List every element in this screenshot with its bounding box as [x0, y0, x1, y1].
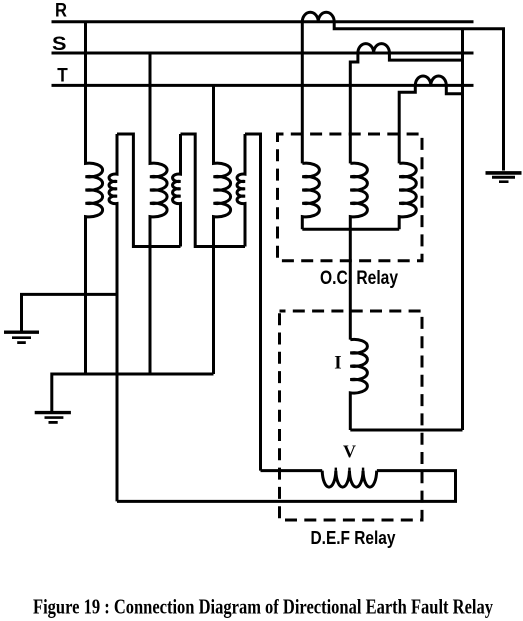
svg-text:T: T	[57, 66, 68, 87]
svg-text:Figure 19 : Connection Diagram: Figure 19 : Connection Diagram of Direct…	[33, 594, 493, 618]
svg-text:I: I	[334, 352, 341, 373]
svg-text:V: V	[343, 442, 356, 462]
svg-text:S: S	[52, 34, 67, 55]
svg-text:R: R	[55, 0, 67, 21]
svg-text:O.C. Relay: O.C. Relay	[320, 268, 398, 289]
svg-text:D.E.F Relay: D.E.F Relay	[311, 528, 396, 548]
